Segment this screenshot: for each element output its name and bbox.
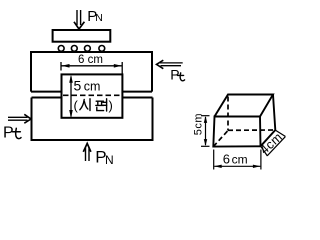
svg-text:P: P [170, 66, 179, 82]
svg-text:cm: cm [232, 152, 248, 166]
svg-text:N: N [105, 153, 114, 167]
svg-text:P: P [3, 125, 14, 142]
svg-text:): ) [109, 98, 113, 113]
svg-text:5: 5 [74, 78, 82, 94]
svg-text:6 cm: 6 cm [78, 54, 103, 66]
svg-text:N: N [95, 12, 103, 24]
svg-text:5cm: 5cm [192, 113, 204, 135]
svg-text:(: ( [74, 98, 79, 113]
svg-text:cm: cm [84, 80, 101, 94]
svg-text:6: 6 [223, 151, 230, 166]
